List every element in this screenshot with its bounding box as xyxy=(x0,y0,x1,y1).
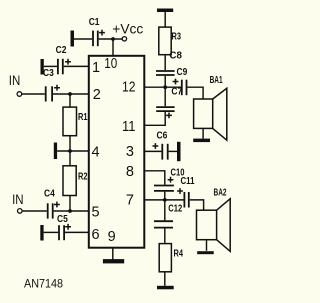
node Vcc junction xyxy=(111,37,115,41)
ground (left of C2) xyxy=(41,59,44,75)
svg-text:+Vcc: +Vcc xyxy=(112,20,143,36)
wire pin 7 xyxy=(144,199,183,201)
svg-text:9: 9 xyxy=(108,229,116,245)
wire pin 9 xyxy=(112,248,114,260)
svg-text:C4: C4 xyxy=(44,189,55,200)
svg-text:R2: R2 xyxy=(78,171,88,182)
svg-text:C6: C6 xyxy=(157,130,168,141)
svg-text:1: 1 xyxy=(92,60,100,76)
svg-text:12: 12 xyxy=(122,80,136,96)
svg-text:5: 5 xyxy=(92,204,100,220)
terminal IN (bottom input) xyxy=(12,191,24,213)
ground (R4) xyxy=(157,286,174,290)
capacitor C11 xyxy=(177,176,195,207)
node pin12 junction xyxy=(163,85,167,89)
speaker BA2 xyxy=(197,188,231,252)
capacitor C4 xyxy=(44,189,60,219)
capacitor C9 xyxy=(156,67,188,78)
svg-text:C9: C9 xyxy=(177,67,188,78)
terminal IN (top input) xyxy=(9,72,22,96)
svg-text:C3: C3 xyxy=(43,68,54,79)
capacitor (input, pin 2) xyxy=(46,85,60,102)
speaker BA1 xyxy=(194,75,227,140)
capacitor C5 (pin 6) xyxy=(59,224,71,240)
capacitor (pin 3) xyxy=(153,143,168,160)
wire C9 to pin12 junction xyxy=(164,76,166,87)
ground (BA1) xyxy=(193,139,210,143)
svg-text:C12: C12 xyxy=(168,204,182,215)
svg-text:6: 6 xyxy=(92,227,100,243)
wire BA1 to ground xyxy=(202,128,204,138)
capacitor C10 xyxy=(154,167,185,191)
ground (BA2) xyxy=(197,251,214,254)
wire ground to C2 xyxy=(44,65,57,67)
wire IN to C4 xyxy=(22,210,47,212)
svg-text:4: 4 xyxy=(92,144,100,160)
svg-text:11: 11 xyxy=(122,119,136,135)
wire pin12 junction to C6 xyxy=(164,87,166,106)
ground (top, above R3) xyxy=(157,9,173,28)
svg-text:BA2: BA2 xyxy=(214,188,227,199)
svg-text:C5: C5 xyxy=(57,214,68,225)
svg-text:C8: C8 xyxy=(169,50,182,61)
wire pin 12 xyxy=(144,86,181,88)
wire R4 to ground xyxy=(164,272,166,286)
wire pin7 junction to C12 xyxy=(164,200,166,221)
wire C10 to pin7 junction xyxy=(164,192,166,200)
svg-text:AN7148: AN7148 xyxy=(24,276,63,290)
wire cap to pin 2 xyxy=(53,93,89,95)
capacitor C7 xyxy=(171,79,186,98)
svg-text:8: 8 xyxy=(126,164,134,180)
ground (left of pin6 cap) xyxy=(40,225,43,241)
wire ground to cap xyxy=(44,231,59,233)
svg-text:3: 3 xyxy=(126,144,134,160)
wire R1 to pin4 junction xyxy=(69,136,71,166)
wire ground to C1 xyxy=(74,38,92,40)
wire cap to ground xyxy=(169,150,177,152)
ground (pin 9) xyxy=(103,259,124,263)
wire C4 to pin 5 xyxy=(54,210,89,212)
wire C11 to speaker BA2 xyxy=(190,200,204,210)
terminal +Vcc xyxy=(112,20,143,41)
svg-text:IN: IN xyxy=(12,191,24,207)
capacitor C12 xyxy=(154,204,182,228)
svg-text:10: 10 xyxy=(104,56,117,72)
svg-text:R4: R4 xyxy=(174,248,184,259)
node pin7 junction xyxy=(163,198,167,202)
svg-text:2: 2 xyxy=(93,87,101,103)
wire R3 to C9 xyxy=(164,55,166,70)
wire R2 to pin5 junction xyxy=(69,196,71,212)
wire ground to pin 4 xyxy=(57,150,89,152)
svg-text:R1: R1 xyxy=(78,112,88,123)
svg-text:R3: R3 xyxy=(172,31,182,42)
capacitor C1 xyxy=(89,17,105,46)
op-amp U1 AN7148 IC body xyxy=(89,56,145,248)
ground (pin 3, right) xyxy=(177,142,181,161)
wire cap to pin 6 xyxy=(65,231,89,233)
resistor R4 xyxy=(159,244,183,272)
svg-text:IN: IN xyxy=(9,72,20,88)
wire C12 to R4 xyxy=(164,229,166,244)
wire junction to R1 xyxy=(69,94,71,107)
wire BA2 to ground xyxy=(206,240,208,251)
node pin2 junction xyxy=(68,92,72,96)
svg-text:C7: C7 xyxy=(171,87,182,98)
wire pin 8 xyxy=(144,171,165,185)
wire pin 10 xyxy=(112,39,114,56)
resistor R3 xyxy=(159,27,181,55)
svg-text:C2: C2 xyxy=(56,45,67,56)
svg-text:BA1: BA1 xyxy=(210,75,223,86)
wire C6 to pin 11 xyxy=(144,112,165,125)
capacitor C2 xyxy=(56,45,71,74)
svg-text:C11: C11 xyxy=(181,176,195,187)
wire C1 to Vcc junction xyxy=(99,38,123,40)
resistor R1 xyxy=(63,107,88,136)
ground (left of C1) xyxy=(71,31,75,47)
capacitor C6 xyxy=(156,107,174,141)
node pin4 junction xyxy=(68,149,72,153)
wire pin 3 xyxy=(144,150,161,152)
ground (left of pin 4) xyxy=(54,143,57,160)
resistor R2 xyxy=(63,166,88,196)
svg-text:7: 7 xyxy=(126,193,134,209)
node pin5 junction xyxy=(68,209,72,213)
wire C2 to pin 1 xyxy=(64,65,89,67)
wire IN to input cap xyxy=(22,93,45,95)
svg-text:C1: C1 xyxy=(89,17,100,28)
wire C7 to speaker BA1 xyxy=(187,87,203,99)
